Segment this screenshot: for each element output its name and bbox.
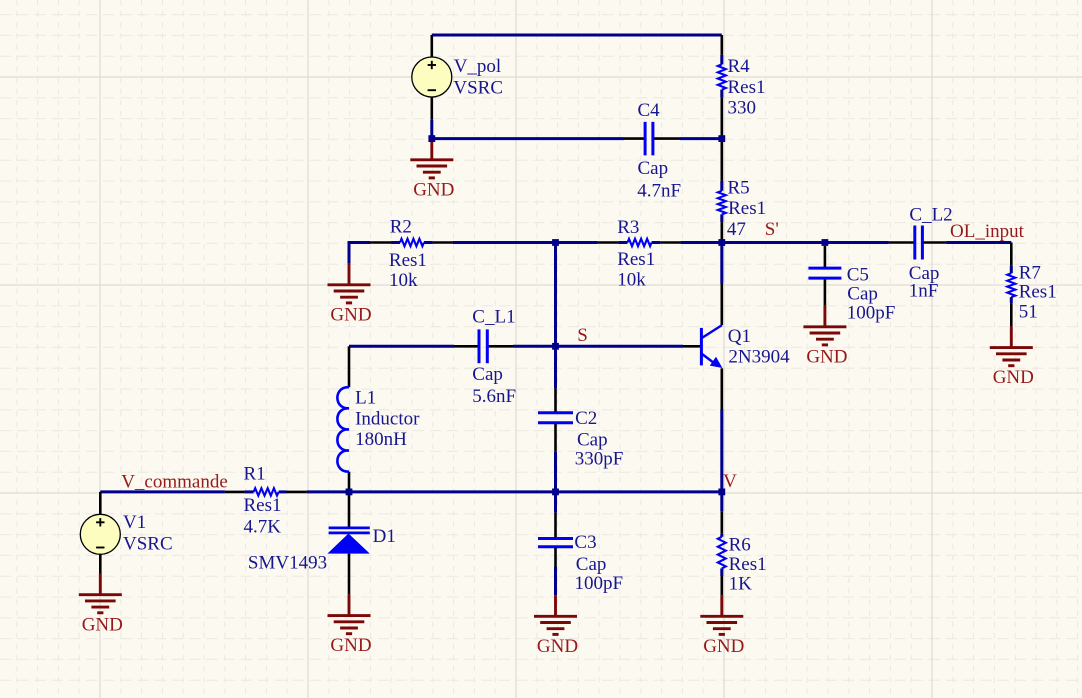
svg-text:2N3904: 2N3904	[728, 347, 790, 368]
svg-text:V1: V1	[123, 512, 146, 533]
svg-text:Cap: Cap	[847, 283, 878, 304]
svg-text:100pF: 100pF	[847, 302, 896, 323]
svg-text:GND: GND	[330, 304, 371, 325]
svg-text:47: 47	[727, 219, 746, 240]
svg-text:100pF: 100pF	[575, 573, 624, 594]
svg-text:Res1: Res1	[1019, 281, 1057, 302]
svg-text:C2: C2	[575, 408, 597, 429]
svg-text:VSRC: VSRC	[123, 534, 173, 555]
svg-text:Cap: Cap	[638, 158, 669, 179]
svg-text:V: V	[723, 471, 737, 492]
svg-text:4.7K: 4.7K	[244, 517, 282, 538]
svg-text:R1: R1	[244, 463, 266, 484]
svg-text:Inductor: Inductor	[355, 408, 420, 429]
svg-text:SMV1493: SMV1493	[248, 552, 327, 573]
svg-text:1nF: 1nF	[909, 281, 939, 302]
svg-text:V_pol: V_pol	[454, 56, 502, 77]
svg-text:VSRC: VSRC	[453, 77, 503, 98]
svg-text:1K: 1K	[729, 574, 753, 595]
svg-text:L1: L1	[355, 388, 376, 409]
svg-text:GND: GND	[806, 346, 847, 367]
svg-text:GND: GND	[82, 614, 123, 635]
svg-text:330pF: 330pF	[575, 449, 624, 470]
svg-text:OL_input: OL_input	[950, 221, 1025, 242]
svg-text:GND: GND	[993, 367, 1034, 388]
svg-text:C3: C3	[574, 532, 596, 553]
svg-text:R3: R3	[617, 217, 639, 238]
svg-text:C4: C4	[638, 100, 661, 121]
svg-text:V_commande: V_commande	[121, 471, 228, 492]
svg-text:C5: C5	[847, 264, 869, 285]
svg-text:Res1: Res1	[244, 495, 282, 516]
svg-text:Res1: Res1	[728, 77, 766, 98]
svg-text:Q1: Q1	[728, 326, 751, 347]
svg-text:R4: R4	[728, 56, 751, 77]
svg-text:Res1: Res1	[617, 249, 655, 270]
svg-text:GND: GND	[330, 635, 371, 656]
svg-text:GND: GND	[703, 636, 744, 657]
svg-text:C_L2: C_L2	[909, 204, 952, 225]
svg-text:GND: GND	[537, 636, 578, 657]
svg-text:4.7nF: 4.7nF	[637, 180, 681, 201]
svg-text:330: 330	[728, 98, 757, 119]
svg-text:5.6nF: 5.6nF	[472, 386, 516, 407]
svg-text:R6: R6	[729, 534, 751, 555]
svg-text:GND: GND	[413, 179, 454, 200]
svg-text:Cap: Cap	[576, 554, 607, 575]
svg-text:10k: 10k	[389, 270, 418, 291]
svg-text:R2: R2	[390, 217, 412, 238]
svg-text:D1: D1	[373, 526, 396, 547]
svg-text:Res1: Res1	[729, 554, 767, 575]
svg-text:Cap: Cap	[472, 364, 503, 385]
svg-text:Res1: Res1	[728, 198, 766, 219]
svg-text:S': S'	[765, 219, 779, 240]
svg-text:180nH: 180nH	[355, 429, 407, 450]
svg-text:S: S	[577, 325, 588, 346]
svg-text:51: 51	[1019, 301, 1038, 322]
svg-text:R5: R5	[728, 177, 750, 198]
svg-text:C_L1: C_L1	[472, 306, 515, 327]
svg-text:Res1: Res1	[389, 250, 427, 271]
svg-text:Cap: Cap	[577, 429, 608, 450]
svg-text:10k: 10k	[617, 270, 646, 291]
